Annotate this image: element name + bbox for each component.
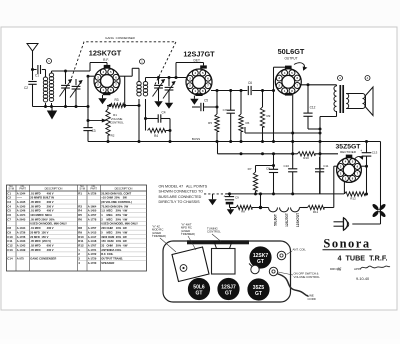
svg-text:220 OHM 10% 1W: 220 OHM 10% 1W	[101, 226, 127, 230]
fan motor symbol	[379, 210, 387, 218]
svg-text:2 MEG 20% ½W: 2 MEG 20% ½W	[101, 217, 127, 221]
svg-text:C13: C13	[7, 248, 13, 252]
resistor R4	[148, 128, 166, 132]
capacitor C11	[319, 157, 321, 169]
svg-text:A-1415: A-1415	[88, 230, 97, 234]
svg-text:DESCRIPTION: DESCRIPTION	[115, 186, 133, 190]
potentiometer R1 volume control	[107, 106, 109, 110]
terminal circle 1 T2	[140, 59, 145, 64]
svg-text:C5: C5	[204, 99, 208, 103]
volume control hole	[269, 267, 277, 275]
wire main buss	[88, 141, 381, 143]
svg-text:20 MMFD BUILT IN: 20 MMFD BUILT IN	[30, 196, 54, 200]
svg-text:1.5 MEG 20% ½W: 1.5 MEG 20% ½W	[101, 209, 127, 213]
svg-text:.02 MFD 600 V: .02 MFD 600 V	[30, 243, 54, 247]
svg-text:DRN: DRN	[330, 267, 337, 271]
wire plate line tube V2	[211, 90, 247, 92]
rf coil T2 secondary winding	[145, 78, 147, 82]
resistor R9	[262, 91, 264, 108]
svg-text:33 OHM 20% ½W: 33 OHM 20% ½W	[101, 243, 128, 247]
svg-text:C13: C13	[372, 150, 378, 154]
power cord	[352, 223, 380, 225]
resistor R11	[303, 207, 308, 209]
svg-text:A-1722: A-1722	[88, 252, 97, 256]
svg-text:CORD: CORD	[308, 297, 316, 301]
svg-text:TRIMMER): TRIMMER)	[152, 234, 166, 238]
ant coil hole	[277, 251, 285, 259]
svg-text:C10: C10	[283, 164, 289, 168]
svg-text:R6: R6	[246, 121, 250, 125]
svg-text:RECTIFIER: RECTIFIER	[340, 150, 357, 154]
tube V1 12SK7GT	[94, 68, 120, 94]
output transformer T3 primary	[336, 85, 338, 86]
svg-text:A-1450: A-1450	[88, 209, 97, 213]
svg-text:150 OHM 10% 1W: 150 OHM 10% 1W	[101, 239, 127, 243]
svg-text:4 TUBE T.R.F.: 4 TUBE T.R.F.	[338, 254, 388, 263]
svg-text:C12: C12	[310, 106, 316, 110]
variable capacitor C14b trimmer	[168, 78, 170, 87]
tube V3 cathode drop	[292, 95, 294, 169]
gang condenser shaft circle	[180, 265, 187, 272]
svg-text:+: +	[224, 195, 226, 199]
svg-text:3900 OHM 20% 1W: 3900 OHM 20% 1W	[101, 235, 127, 239]
capacitor C10	[288, 168, 297, 170]
svg-text:.05 MFD 200V 20%: .05 MFD 200V 20%	[30, 217, 55, 221]
svg-text:APP: APP	[354, 267, 360, 271]
svg-text:50L6GT: 50L6GT	[278, 47, 305, 56]
svg-text:A-1345: A-1345	[17, 204, 26, 208]
switch hole	[251, 265, 259, 273]
svg-text:#6: #6	[336, 267, 342, 272]
tube V2 12SJ7GT	[186, 69, 212, 95]
svg-text:1 MEG 20% ½W: 1 MEG 20% ½W	[101, 213, 127, 217]
svg-text:R7: R7	[248, 167, 252, 171]
svg-text:R9: R9	[267, 114, 271, 118]
svg-text:20 MFD 150 V: 20 MFD 150 V	[30, 235, 48, 239]
resistor R12	[343, 182, 345, 194]
svg-text:12SK7GT: 12SK7GT	[89, 49, 122, 58]
svg-text:100 MMFD MICA: 100 MMFD MICA	[30, 213, 52, 217]
svg-text:GT: GT	[257, 259, 264, 265]
capacitor C5	[192, 106, 200, 108]
svg-text:A-1721: A-1721	[88, 248, 97, 252]
capacitor C1	[33, 69, 37, 71]
svg-text:A-1343: A-1343	[17, 243, 26, 247]
svg-text:NO.: NO.	[21, 185, 26, 188]
svg-text:A-1778: A-1778	[88, 217, 97, 221]
wire R1 bottom to buss	[107, 135, 109, 142]
svg-text:9-10-40: 9-10-40	[356, 277, 369, 281]
svg-text:A-1344: A-1344	[17, 226, 26, 230]
svg-text:A-575: A-575	[17, 257, 25, 261]
line cord	[278, 274, 309, 296]
ground arrow chassis link	[212, 194, 214, 196]
svg-text:C11: C11	[323, 164, 329, 168]
node heater junction	[259, 206, 262, 209]
svg-text:DIRECTLY TO CHASSIS: DIRECTLY TO CHASSIS	[159, 200, 201, 204]
svg-text:BUSS ARE CONNECTED: BUSS ARE CONNECTED	[159, 195, 202, 199]
svg-text:+10 OHM 20% 5W: +10 OHM 20% 5W	[101, 196, 127, 200]
svg-text:A-2645: A-2645	[17, 217, 26, 221]
svg-text:+: +	[360, 149, 362, 153]
terminal circle 1	[47, 59, 52, 64]
svg-text:A-1345: A-1345	[17, 200, 26, 204]
svg-text:C4: C4	[161, 111, 165, 115]
svg-text:A-1767: A-1767	[88, 213, 97, 217]
wire B-minus return y194	[226, 193, 344, 195]
wire tube V3 plate to output transformer	[301, 84, 336, 86]
wire tube V4 left	[334, 165, 337, 167]
svg-text:.05 MFD 400 V: .05 MFD 400 V	[30, 248, 54, 252]
svg-text:NO.: NO.	[92, 185, 97, 188]
svg-text:C7: C7	[223, 108, 227, 112]
wire tube V1 grid return	[88, 75, 94, 77]
tube V2 cathode tab	[195, 93, 202, 96]
svg-text:12SK7GT: 12SK7GT	[296, 213, 300, 227]
wire grid lead tube V1	[52, 70, 91, 72]
resistor R6	[240, 91, 242, 115]
svg-text:A-1343: A-1343	[17, 239, 26, 243]
variable capacitor C14b tuning	[158, 78, 160, 85]
svg-text:C3: C3	[91, 129, 95, 133]
capacitor C7	[230, 91, 232, 111]
wire grid drop tube V3	[273, 67, 275, 141]
svg-text:——: ——	[17, 197, 23, 200]
svg-text:R8: R8	[241, 210, 245, 214]
ground arrow below C9	[230, 208, 232, 210]
capacitor C9 electrolytic	[228, 192, 231, 195]
svg-text:C9: C9	[235, 196, 239, 200]
svg-text:ANT. COIL: ANT. COIL	[293, 248, 307, 252]
arrow tube V4 plate	[355, 156, 363, 159]
svg-text:R11: R11	[313, 210, 319, 214]
svg-text:A-1726: A-1726	[88, 191, 97, 195]
resistor R3	[107, 105, 110, 107]
ground arrow tube V2 cathode	[193, 96, 195, 99]
svg-text:GT: GT	[196, 290, 203, 296]
resistor R5	[216, 91, 218, 115]
tube V3 cathode tab	[285, 93, 292, 96]
wire line y133	[245, 132, 320, 134]
svg-text:.05 MFD 200 V: .05 MFD 200 V	[30, 200, 54, 204]
svg-text:ANTENNA COIL: ANTENNA COIL	[101, 248, 122, 252]
svg-text:.01 MFD 400 V: .01 MFD 400 V	[30, 209, 54, 213]
svg-text:A-1730: A-1730	[88, 261, 97, 265]
svg-text:CONTROL: CONTROL	[110, 121, 124, 125]
antenna coil T1 primary winding	[45, 70, 47, 78]
wire right edge feed	[380, 142, 382, 225]
svg-text:Sonora: Sonora	[323, 237, 370, 251]
antenna coil T1 secondary winding	[51, 71, 53, 73]
ground arrow tube V1 cathode	[102, 95, 104, 98]
power plug	[334, 221, 344, 223]
svg-text:A-1374: A-1374	[17, 213, 26, 217]
svg-text:A-1349: A-1349	[17, 248, 26, 252]
svg-text:R10: R10	[303, 156, 309, 160]
svg-text:12SJ7GT: 12SJ7GT	[183, 50, 215, 59]
speaker voice coil wires	[346, 93, 362, 95]
svg-text:USED ON MODEL M90 ONLY: USED ON MODEL M90 ONLY	[30, 222, 67, 226]
svg-text:A-1736: A-1736	[17, 235, 26, 239]
dashed chassis link	[204, 193, 226, 195]
curved arrow tube V3	[294, 63, 305, 70]
svg-text:OUTPUT: OUTPUT	[284, 56, 297, 60]
output transformer core	[339, 85, 341, 113]
chassis outline	[163, 241, 291, 302]
svg-text:DET.: DET.	[194, 59, 201, 63]
speaker cone	[366, 87, 374, 116]
capacitor C12	[307, 85, 309, 113]
svg-text:ON MODEL 47 ALL POINTS: ON MODEL 47 ALL POINTS	[159, 185, 208, 189]
svg-text:20 MFD 150 V: 20 MFD 150 V	[30, 230, 48, 234]
terminal circle 3	[338, 76, 343, 81]
heater 12SJ7GT	[280, 208, 289, 212]
wire grid lead tube V2	[146, 77, 187, 79]
rf coil T2 primary winding	[138, 68, 140, 81]
tuning shaft trapezoid	[214, 242, 232, 249]
signature	[360, 266, 390, 269]
heater 12SK7GT	[291, 208, 300, 212]
svg-text:A-1418: A-1418	[88, 239, 97, 243]
capacitor C8	[256, 165, 274, 167]
chassis tube 12SJ7 GT	[218, 278, 239, 299]
svg-text:VOLUME CONTROL: VOLUME CONTROL	[294, 275, 321, 279]
svg-text:C6: C6	[248, 81, 252, 85]
svg-text:75,000 OHM 20% 5W: 75,000 OHM 20% 5W	[101, 204, 128, 208]
gang condenser tilted box	[172, 247, 209, 282]
terminal circle 4	[365, 76, 370, 81]
svg-text:R3: R3	[114, 98, 118, 102]
svg-text:OUTPUT TRANS.: OUTPUT TRANS.	[101, 257, 123, 261]
resistor R8 heater dropping	[230, 207, 237, 209]
svg-text:.01 MFD 400 V: .01 MFD 400 V	[30, 226, 54, 230]
chassis tube 35Z5 GT	[248, 279, 269, 300]
resistor R10	[298, 152, 316, 156]
chassis top label band	[187, 240, 249, 244]
tube V3 50L6GT	[275, 69, 301, 95]
svg-text:R6: R6	[78, 217, 82, 221]
capacitor C2	[32, 70, 34, 81]
tube V1 cathode tab	[103, 92, 111, 95]
svg-text:A-1736: A-1736	[17, 230, 26, 234]
wire tube V1 screen drop	[124, 76, 126, 105]
resistor R7 bleeder	[255, 166, 257, 173]
svg-text:TRIMMER): TRIMMER)	[181, 232, 195, 236]
svg-text:C8: C8	[266, 167, 270, 171]
wire transformer return drop	[319, 129, 321, 194]
svg-text:R5: R5	[208, 121, 212, 125]
svg-text:R2: R2	[111, 134, 115, 138]
gang condenser dashed boundary	[72, 42, 177, 87]
svg-text:R1: R1	[78, 191, 82, 195]
svg-text:A-1767: A-1767	[88, 243, 97, 247]
node antenna junction	[31, 68, 34, 71]
svg-text:R.F.: R.F.	[103, 58, 109, 62]
chassis tube 50L6 GT	[188, 278, 209, 299]
svg-text:A-1729: A-1729	[88, 257, 97, 261]
svg-text:SHOWN CONNECTED TO: SHOWN CONNECTED TO	[159, 190, 204, 194]
svg-text:GT: GT	[225, 290, 232, 296]
parts table	[7, 185, 147, 271]
svg-text:.05 MFD 200 V: .05 MFD 200 V	[30, 204, 54, 208]
variable capacitor C14a tuning	[65, 71, 67, 84]
svg-text:C7: C7	[7, 217, 11, 221]
antenna	[27, 44, 38, 52]
svg-text:A-1767: A-1767	[88, 226, 97, 230]
svg-text:(W VOLUME CONTROL): (W VOLUME CONTROL)	[101, 200, 132, 204]
heater 50L6GT	[269, 208, 278, 212]
svg-text:C1: C1	[35, 74, 39, 78]
svg-text:25,000 OHM VOL CONT: 25,000 OHM VOL CONT	[101, 191, 131, 195]
wiper arrow R1	[88, 120, 103, 122]
svg-text:NO.: NO.	[9, 185, 14, 188]
capacitor C13 electrolytic	[365, 140, 368, 143]
chassis tube 12SK7 GT	[250, 247, 271, 268]
svg-text:C2: C2	[24, 86, 28, 90]
svg-text:.05 MFD (200 V): .05 MFD (200 V)	[30, 239, 51, 243]
wire tube V4 right	[361, 165, 366, 167]
svg-text:SPEAKER: SPEAKER	[101, 261, 114, 265]
variable capacitor C14a trimmer	[75, 79, 77, 85]
svg-text:5 MEG 20% ½W: 5 MEG 20% ½W	[101, 230, 127, 234]
wire screen feed y153.8	[217, 142, 219, 154]
speaker voice coil	[363, 94, 366, 109]
svg-text:R.F. COIL: R.F. COIL	[101, 252, 113, 256]
svg-text:A-1417: A-1417	[88, 235, 97, 239]
svg-text:NO.: NO.	[80, 185, 85, 188]
tube V4 35Z5GT	[337, 158, 362, 183]
svg-text:GANG CONDENSER: GANG CONDENSER	[30, 257, 56, 261]
ground arrow below input rail	[51, 107, 53, 111]
output transformer secondary	[346, 94, 349, 109]
svg-text:R12: R12	[350, 197, 356, 201]
svg-text:R4: R4	[154, 134, 158, 138]
capacitor C4	[144, 117, 147, 120]
svg-text:C14: C14	[7, 257, 13, 261]
capacitor C3	[87, 76, 89, 127]
svg-text:DESCRIPTION: DESCRIPTION	[45, 186, 63, 190]
svg-text:BUSS: BUSS	[192, 137, 200, 141]
svg-text:50L6GT: 50L6GT	[274, 214, 278, 226]
svg-text:A-1346: A-1346	[17, 209, 26, 213]
svg-text:USED ON MODEL M90 ONLY: USED ON MODEL M90 ONLY	[101, 222, 138, 226]
svg-text:CONTROL: CONTROL	[207, 230, 221, 234]
svg-text:A-1344: A-1344	[17, 191, 26, 195]
svg-text:GANG CONDENSER: GANG CONDENSER	[105, 36, 136, 40]
svg-text:.01 MFD 400 V: .01 MFD 400 V	[30, 191, 54, 195]
svg-text:A-1664: A-1664	[88, 204, 97, 208]
speaker opening rect	[212, 249, 236, 275]
svg-text:12SJ7GT: 12SJ7GT	[285, 213, 289, 227]
wire input bottom rail	[33, 106, 89, 108]
wire tube V1 plate to coil T2	[120, 75, 132, 77]
capacitor C6	[247, 86, 249, 95]
svg-text:GT: GT	[255, 291, 262, 297]
